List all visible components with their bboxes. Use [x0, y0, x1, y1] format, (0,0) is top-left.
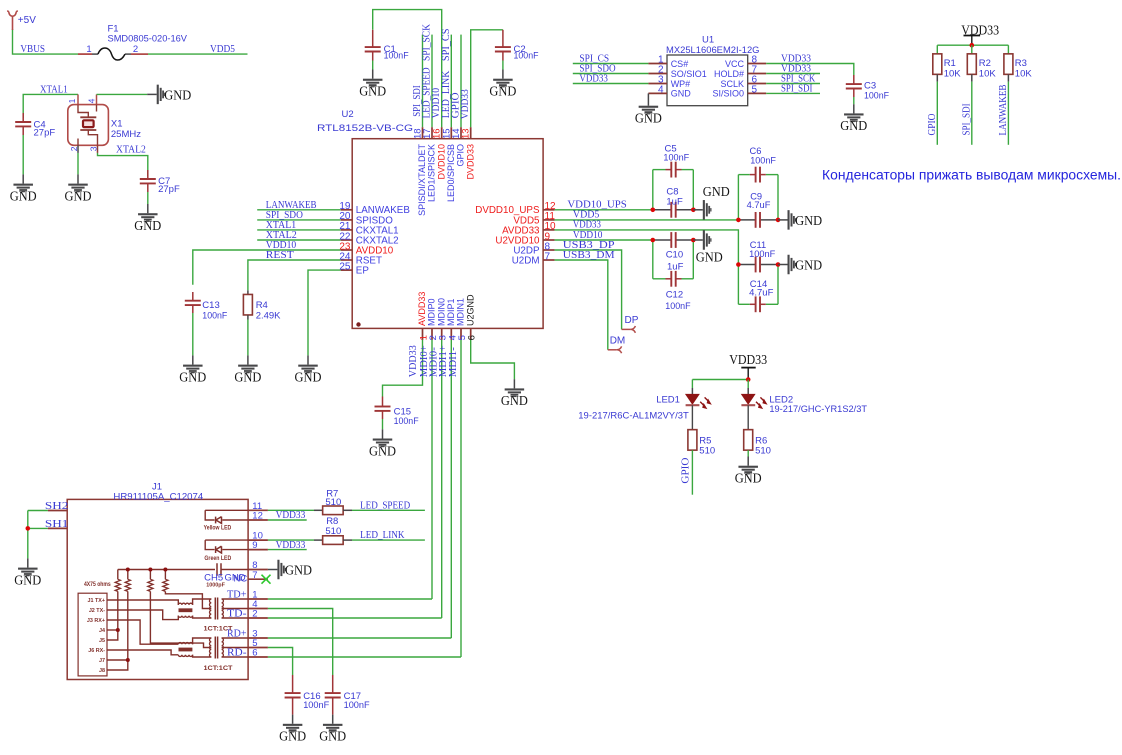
transformer T2 1CT:1CT [179, 648, 193, 652]
J1 internal LED green [205, 539, 248, 541]
svg-text:GND: GND [10, 189, 37, 204]
svg-text:MDIN0: MDIN0 [436, 298, 446, 326]
wire HOLD# [766, 73, 820, 75]
ground below crystal pin2 [77, 174, 79, 183]
capacitor C12 100nF [652, 240, 654, 279]
svg-text:1: 1 [86, 44, 91, 55]
resistor R3 10K [1007, 45, 1009, 54]
svg-text:GND: GND [795, 259, 822, 274]
svg-text:GND: GND [65, 189, 92, 204]
svg-text:U2: U2 [342, 109, 354, 120]
svg-text:1CT:1CT: 1CT:1CT [204, 626, 233, 633]
U2 pin 1 AVDD33 [422, 328, 424, 340]
U1 pin 2 SO/SIO1 [648, 73, 667, 75]
U2 pin 4 MDIP1 [450, 328, 452, 340]
ground below C15 [382, 429, 384, 438]
svg-text:12: 12 [252, 511, 263, 522]
svg-text:HOLD#: HOLD# [714, 69, 744, 79]
svg-text:6: 6 [467, 335, 478, 340]
wire VDD33 pin9 [268, 549, 307, 551]
wire resistor4 to choke1 tap [165, 591, 211, 608]
ground below C16 [292, 723, 294, 725]
capacitor C7 27pF [147, 170, 149, 179]
J1 pin 12 stub [248, 519, 268, 521]
svg-text:CS#: CS# [671, 59, 689, 69]
svg-text:VDD33: VDD33 [408, 345, 419, 377]
svg-text:LED_LINK: LED_LINK [360, 530, 405, 541]
U2 pin 6 U2GND [470, 328, 472, 340]
svg-text:REST: REST [266, 250, 294, 261]
svg-text:R2: R2 [979, 58, 991, 69]
svg-text:GPIO: GPIO [681, 458, 692, 484]
ground below C17 [323, 724, 343, 726]
wire pin10 to R8 [268, 539, 314, 541]
svg-text:MDIP0: MDIP0 [427, 298, 437, 326]
svg-text:DP: DP [625, 315, 639, 326]
svg-text:SPISDI/XTALDET: SPISDI/XTALDET [417, 144, 427, 216]
wire TD+ to MDIP0 [268, 598, 432, 600]
svg-text:27pF: 27pF [158, 184, 180, 195]
svg-text:SH1: SH1 [45, 519, 69, 530]
svg-text:USB3_DM: USB3_DM [563, 250, 615, 261]
svg-text:VCC: VCC [725, 59, 745, 69]
wire REST to R4 [248, 260, 341, 290]
wire RD+ to MDIP1 [268, 637, 451, 639]
svg-text:XTAL1: XTAL1 [40, 84, 68, 95]
wire VDD10_UPS [555, 209, 653, 211]
U1 pin 8 VCC [748, 63, 767, 65]
junction dots C10 [651, 238, 656, 243]
svg-text:GND: GND [279, 730, 306, 745]
svg-text:4: 4 [86, 98, 96, 103]
U2 pin 13 DVDD33 [470, 127, 472, 139]
svg-text:VDD33: VDD33 [579, 74, 608, 85]
wire pullup rail [937, 44, 1008, 46]
svg-text:MDIP1: MDIP1 [446, 298, 456, 326]
svg-text:GND: GND [369, 444, 396, 459]
U2 pin 2 MDIP0 [431, 328, 433, 340]
svg-text:SPI_SDI: SPI_SDI [962, 103, 973, 135]
svg-text:100nF: 100nF [749, 249, 776, 259]
svg-text:J5: J5 [99, 638, 105, 644]
J1 pin 9 stub [248, 549, 268, 551]
svg-text:100nF: 100nF [202, 311, 227, 322]
svg-text:510: 510 [325, 526, 341, 537]
resistor R7 510 [314, 509, 323, 511]
svg-text:R1: R1 [944, 58, 956, 69]
resistor R6 510 [744, 430, 753, 451]
J1 center tap rail [118, 569, 215, 571]
wire VDD33 pin12 [268, 519, 307, 521]
svg-text:2.49K: 2.49K [256, 311, 281, 322]
U1 pin 5 SI/SIO0 [748, 92, 767, 94]
wire SH1 [28, 527, 48, 529]
svg-text:J1 TX+: J1 TX+ [87, 598, 105, 604]
svg-text:9: 9 [252, 540, 257, 551]
svg-text:SPI_CS: SPI_CS [441, 28, 452, 61]
svg-text:EP: EP [356, 266, 370, 277]
resistor R5 510 [688, 430, 697, 451]
capacitor C14 4.7uF [737, 265, 739, 305]
J1 termination resistor 3 [149, 570, 151, 580]
capacitor C1 100nF [372, 30, 374, 47]
wire J7 to resistor2 [107, 659, 128, 661]
svg-text:J7: J7 [99, 658, 105, 664]
wire USB3_DP [555, 250, 622, 329]
svg-text:LED1/SPISCK: LED1/SPISCK [427, 144, 437, 202]
wire SPI_SDO to U1 [573, 73, 649, 75]
wire SPI_SDO [257, 219, 341, 221]
ground right of C9 [778, 219, 788, 221]
wire LED_SPEED/SPI_SCK pin17 [431, 35, 433, 128]
wire J3RX+ to choke2 [107, 620, 178, 644]
svg-text:GND: GND [14, 573, 41, 588]
svg-text:1uF: 1uF [666, 196, 683, 207]
wire LED_LINK/SPI_CS pin15 [450, 35, 452, 128]
svg-text:VDD33: VDD33 [729, 353, 767, 368]
svg-text:GND: GND [735, 472, 762, 487]
svg-text:100nF: 100nF [344, 700, 370, 711]
wire LED rail [692, 379, 748, 381]
capacitor C3 100nF [853, 75, 855, 84]
J1 pin 7 stub [248, 578, 268, 580]
svg-text:1uF: 1uF [667, 262, 684, 273]
junction dot LED rail [746, 377, 751, 382]
wire SPI_SCK [766, 83, 820, 85]
svg-text:4: 4 [658, 84, 664, 95]
svg-text:SMD0805-020-16V: SMD0805-020-16V [108, 34, 188, 45]
U2 pin 23 AVDD10 [341, 249, 353, 251]
wire MDI1+ [450, 340, 452, 638]
J1 pin 3 stub [248, 637, 268, 639]
capacitor C9 4.7uF [738, 219, 755, 221]
U2 pin 19 LANWAKEB [341, 209, 353, 211]
wire XTAL2 [98, 153, 148, 176]
wire C2 to pin13 [471, 30, 503, 127]
svg-text:GND: GND [164, 88, 191, 103]
svg-text:AVDD33: AVDD33 [417, 292, 427, 326]
svg-text:LED1: LED1 [656, 395, 680, 406]
svg-text:100nF: 100nF [303, 700, 329, 711]
svg-text:510: 510 [755, 445, 771, 456]
J1 pin 1 stub [248, 598, 268, 600]
wire MDI0+ [431, 340, 433, 599]
resistor R2 10K [971, 45, 973, 54]
svg-text:R4: R4 [256, 300, 268, 311]
wire SPI_CS to U1 [573, 63, 649, 65]
capacitor C11 100nF [738, 264, 755, 266]
U1 pin 7 HOLD# [748, 73, 767, 75]
svg-text:GPIO: GPIO [927, 114, 938, 136]
svg-text:7: 7 [252, 570, 257, 581]
wire GPIO pin14 [460, 35, 462, 128]
resistor R8 510 [314, 539, 323, 541]
svg-text:DVDD10: DVDD10 [436, 144, 446, 180]
U2 pin 21 CKXTAL1 [341, 229, 353, 231]
svg-text:GND: GND [703, 185, 730, 200]
wire SH2 [28, 510, 48, 512]
wire VBUS from +5V flag [13, 29, 79, 54]
ground right of crystal [147, 93, 157, 95]
svg-text:2: 2 [252, 609, 257, 620]
ground below R4 [247, 355, 249, 364]
wire crystal pin4 to GND [97, 93, 148, 95]
svg-text:Конденсаторы прижать выводам м: Конденсаторы прижать выводам микросхемы. [822, 167, 1121, 182]
svg-text:25MHz: 25MHz [111, 129, 141, 140]
ground below C1 [372, 70, 374, 79]
svg-text:SI/SIO0: SI/SIO0 [712, 89, 744, 99]
svg-text:C10: C10 [666, 249, 683, 260]
ground below R6 [747, 457, 749, 466]
svg-text:10K: 10K [1015, 69, 1033, 80]
svg-text:100nF: 100nF [384, 51, 409, 62]
svg-text:VDD33: VDD33 [276, 510, 306, 521]
resistor R1 10K [936, 45, 938, 54]
resistor R4 2.49K [247, 290, 249, 294]
U2 pin 14 GPIO [460, 127, 462, 139]
J1 termination resistor 4 [164, 570, 166, 580]
wire RD- to MDIN1 [268, 656, 461, 658]
ground right of C11 [778, 264, 788, 266]
U1 pin 4 GND [648, 92, 667, 94]
svg-text:VBUS: VBUS [20, 44, 45, 55]
svg-text:NC: NC [234, 574, 248, 585]
svg-text:GND: GND [696, 251, 723, 266]
svg-text:19-217/R6C-AL1M2VY/3T: 19-217/R6C-AL1M2VY/3T [578, 410, 689, 421]
capacitor C2 100nF [502, 30, 504, 47]
J1 pin 2 stub [248, 617, 268, 619]
svg-text:7: 7 [545, 251, 551, 262]
svg-text:510: 510 [325, 497, 341, 508]
svg-text:13: 13 [461, 128, 472, 139]
port DM [608, 349, 617, 351]
wire EP to GND [308, 270, 341, 355]
svg-text:10K: 10K [944, 69, 962, 80]
svg-text:1000pF: 1000pF [206, 583, 225, 589]
svg-text:GND: GND [795, 214, 822, 229]
LED2 19-217/GHC-YR1S2/3T [747, 380, 749, 389]
svg-text:HR911105A_C12074: HR911105A_C12074 [113, 491, 203, 502]
wire crystal pin2 to GND [77, 153, 79, 175]
J1 termination resistor 1 [117, 570, 119, 580]
U1 pin 1 CS# [648, 63, 667, 65]
wire pin5 to C16 [268, 648, 293, 676]
wire VDD10 to C13 [193, 250, 341, 285]
J1 internal LED yellow [205, 509, 248, 511]
svg-text:LANWAKEB: LANWAKEB [998, 84, 1009, 135]
U2 pin 25 EP [341, 269, 353, 271]
svg-text:GND: GND [295, 370, 322, 385]
U2 pin 8 U2DP [543, 249, 555, 251]
U2 pin 9 U2VDD10 [543, 239, 555, 241]
junction dot VDD33 rail [970, 43, 975, 48]
svg-text:VDD33: VDD33 [460, 89, 471, 119]
wire VDD5 [148, 53, 248, 55]
U2 pin 20 SPISDO [341, 219, 353, 221]
U2 pin 18 SPISDI/XTALDET [422, 127, 424, 139]
svg-text:10K: 10K [979, 69, 997, 80]
svg-text:GND: GND [359, 85, 386, 100]
U2 pin 11 VDD5 [543, 219, 555, 221]
crystal X1 25MHz [68, 105, 109, 146]
wire XTAL2 [257, 239, 341, 241]
capacitor C5 100nF [652, 170, 654, 210]
svg-text:C6: C6 [750, 146, 762, 156]
J1 pin 10 stub [248, 539, 268, 541]
svg-text:GND: GND [234, 370, 261, 385]
svg-text:1: 1 [67, 98, 77, 103]
wire VDD33 to U1 WP# [573, 83, 649, 85]
junction dot SH1 [26, 526, 31, 531]
ground below C3 [853, 104, 855, 113]
svg-text:100nF: 100nF [750, 156, 776, 166]
svg-text:J3 RX+: J3 RX+ [87, 618, 105, 624]
U2 pin 22 CKXTAL2 [341, 239, 353, 241]
svg-text:WP#: WP# [671, 79, 691, 89]
capacitor C10 1uF [653, 239, 672, 241]
svg-text:4.7uF: 4.7uF [749, 288, 773, 299]
svg-text:6: 6 [252, 648, 257, 659]
svg-text:MDI1-: MDI1- [448, 347, 459, 377]
wire AVDD33 pin1 to C15 [383, 340, 423, 397]
wire VCC to C3 [766, 64, 854, 76]
ground below U1 pin4 [647, 97, 649, 106]
capacitor C16 100nF [292, 675, 294, 693]
wire TD- to MDIN0 [268, 617, 442, 619]
wire SPI_SDI U1 [766, 92, 820, 94]
wire J2TX- to choke1 [107, 610, 178, 620]
svg-text:C12: C12 [666, 290, 683, 301]
svg-text:GND: GND [285, 564, 312, 579]
connector J1 HR911105A_C12074 [67, 499, 248, 679]
svg-text:100nF: 100nF [663, 153, 689, 164]
wire C1 to pin16 [373, 10, 442, 128]
J1 pin 11 stub [248, 509, 268, 511]
svg-text:GND: GND [671, 89, 692, 99]
svg-text:Yellow LED: Yellow LED [204, 525, 232, 532]
U2 pin 24 RSET [341, 259, 353, 261]
svg-text:VDD33: VDD33 [276, 540, 306, 551]
svg-text:SO/SIO1: SO/SIO1 [671, 69, 707, 79]
wire LED_SPEED [352, 509, 425, 511]
svg-text:SPI_SCK: SPI_SCK [422, 23, 433, 61]
svg-text:GND: GND [134, 219, 161, 234]
svg-text:U2DM: U2DM [512, 255, 540, 266]
svg-text:XTAL2: XTAL2 [116, 145, 146, 156]
svg-text:GND: GND [489, 85, 516, 100]
wire VDD10 right [555, 239, 653, 241]
svg-text:100nF: 100nF [864, 90, 889, 101]
svg-text:+5V: +5V [18, 15, 36, 26]
capacitor CH5 1000pF internal [217, 563, 221, 575]
no-connect X pin7 [262, 575, 271, 584]
transformer T1 1CT:1CT [179, 608, 193, 612]
svg-text:GPIO: GPIO [456, 144, 466, 167]
ground below C13 [192, 355, 194, 364]
svg-text:MX25L1606EM2I-12G: MX25L1606EM2I-12G [666, 45, 760, 56]
U2 pin 17 LED1/SPISCK [431, 127, 433, 139]
svg-text:J6 RX-: J6 RX- [88, 648, 105, 654]
J1 pin 4 stub [248, 608, 268, 610]
svg-text:MDIN1: MDIN1 [456, 298, 466, 326]
svg-text:RTL8152B-VB-CG: RTL8152B-VB-CG [317, 123, 413, 134]
wire XTAL1 [257, 229, 341, 231]
svg-text:2: 2 [133, 44, 138, 55]
ground right of C10 [693, 239, 703, 241]
svg-text:Green LED: Green LED [204, 555, 231, 562]
wire SPI_SDI pin18 [422, 35, 424, 128]
wire shield to GND [27, 511, 29, 559]
svg-text:U2GND: U2GND [465, 294, 475, 326]
svg-text:1CT:1CT: 1CT:1CT [204, 665, 233, 672]
svg-text:C13: C13 [202, 300, 219, 311]
svg-text:100nF: 100nF [394, 416, 419, 427]
svg-text:27pF: 27pF [34, 127, 56, 138]
wire J6RX- to choke2 [107, 650, 178, 655]
capacitor C8 1uF [653, 209, 672, 211]
wire J8 to resistor2 [107, 591, 128, 670]
U2 pin 7 U2DM [543, 259, 555, 261]
svg-text:R3: R3 [1015, 58, 1027, 69]
svg-text:VDD5: VDD5 [210, 44, 235, 55]
svg-text:SCLK: SCLK [720, 79, 744, 89]
wire LED_LINK [352, 539, 425, 541]
junction dots C9 [736, 218, 741, 223]
svg-text:100nF: 100nF [665, 301, 690, 312]
wire MDI1- [460, 340, 462, 657]
svg-text:LED_SPEED: LED_SPEED [360, 500, 410, 511]
wire pin11 to R7 [268, 509, 314, 511]
pin stubs crystal [77, 94, 79, 104]
wire pin4 to C17 [268, 609, 333, 676]
U2 pin 5 MDIN1 [460, 328, 462, 340]
wire resistor3 to choke2 tap [150, 591, 211, 647]
U2 pin 10 AVDD33 [543, 229, 555, 231]
junction dots C11 [736, 262, 741, 267]
ground right of C8 [693, 209, 703, 211]
IC U2 RTL8152B-VB-CG [352, 139, 543, 329]
svg-text:GND: GND [635, 112, 662, 127]
wire MDI0- [441, 340, 443, 618]
wire XTAL1 [23, 94, 78, 118]
svg-text:5: 5 [752, 84, 758, 95]
U1 pin 3 WP# [648, 83, 667, 85]
wire VDD5 [555, 219, 739, 221]
ground below shield [27, 558, 29, 567]
J1 inner connector box [78, 593, 107, 676]
J1 pin 5 stub [248, 647, 268, 649]
U2 pin 3 MDIN0 [441, 328, 443, 340]
ground at pin8 [268, 569, 278, 571]
svg-text:DVDD33: DVDD33 [465, 144, 475, 180]
svg-text:J8: J8 [99, 668, 105, 674]
J1 pin 6 stub [248, 656, 268, 658]
svg-text:GND: GND [840, 119, 867, 134]
wire J5 to resistor1 [107, 591, 118, 640]
J1 pin 8 stub [248, 569, 268, 571]
svg-text:4X75 ohms: 4X75 ohms [84, 581, 111, 588]
wire USB3_DM [555, 260, 608, 350]
U2 pin 12 DVDD10_UPS [543, 209, 555, 211]
U1 pin 6 SCLK [748, 83, 767, 85]
svg-text:GND: GND [179, 370, 206, 385]
wire J1TX+ to choke1 [107, 600, 178, 605]
power flag +5V [7, 11, 18, 16]
junction dots rail [126, 568, 130, 572]
svg-text:LED0/SPICSB: LED0/SPICSB [446, 144, 456, 202]
svg-text:25: 25 [339, 261, 351, 272]
U2 pin 16 DVDD10 [441, 127, 443, 139]
